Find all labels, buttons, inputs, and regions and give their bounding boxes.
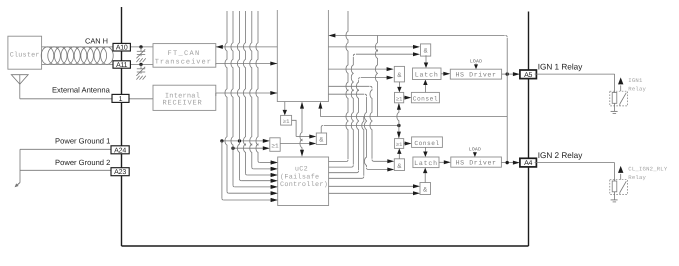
svg-text:&: & [319, 137, 323, 145]
svg-text:Cluster: Cluster [10, 52, 40, 60]
svg-text:Relay: Relay [628, 85, 646, 92]
svg-text:IGN 1 Relay: IGN 1 Relay [538, 63, 583, 72]
svg-text:FT_CAN: FT_CAN [167, 50, 200, 58]
svg-text:IGN1: IGN1 [628, 77, 643, 84]
svg-text:≥1: ≥1 [283, 118, 290, 125]
svg-text:uC2: uC2 [295, 165, 308, 173]
svg-text:&: & [424, 48, 428, 56]
svg-text:CL_IGN2_RLY: CL_IGN2_RLY [628, 165, 668, 172]
svg-text:HS Driver: HS Driver [456, 160, 497, 167]
svg-text:IGN 2 Relay: IGN 2 Relay [538, 151, 583, 160]
svg-text:≥1: ≥1 [396, 96, 402, 102]
svg-text:1: 1 [119, 96, 123, 103]
svg-text:A11: A11 [116, 62, 128, 69]
svg-text:Power Ground 1: Power Ground 1 [55, 137, 110, 146]
svg-text:Power Ground 2: Power Ground 2 [55, 158, 110, 167]
svg-text:A4: A4 [524, 160, 532, 167]
svg-text:A5: A5 [524, 72, 532, 79]
svg-text:Transceiver: Transceiver [155, 57, 212, 66]
svg-text:Relay: Relay [628, 174, 646, 181]
svg-text:A10: A10 [116, 45, 128, 52]
svg-text:≥1: ≥1 [271, 142, 279, 149]
svg-text:≥1: ≥1 [396, 142, 402, 148]
svg-text:RECEIVER: RECEIVER [162, 100, 202, 108]
svg-text:External Antenna: External Antenna [52, 85, 111, 94]
svg-text:A23: A23 [114, 169, 126, 176]
svg-text:Latch: Latch [415, 72, 439, 79]
svg-text:Consel: Consel [413, 95, 438, 102]
svg-text:&: & [397, 72, 401, 80]
svg-text:HS Driver: HS Driver [455, 72, 496, 79]
svg-text:CAN H: CAN H [85, 37, 108, 46]
svg-text:A24: A24 [114, 147, 126, 154]
svg-text:Consel: Consel [414, 140, 439, 147]
svg-text:&: & [397, 163, 401, 171]
svg-text:&: & [423, 187, 427, 195]
svg-text:Controller): Controller) [280, 181, 328, 189]
svg-text:Latch: Latch [414, 160, 438, 167]
